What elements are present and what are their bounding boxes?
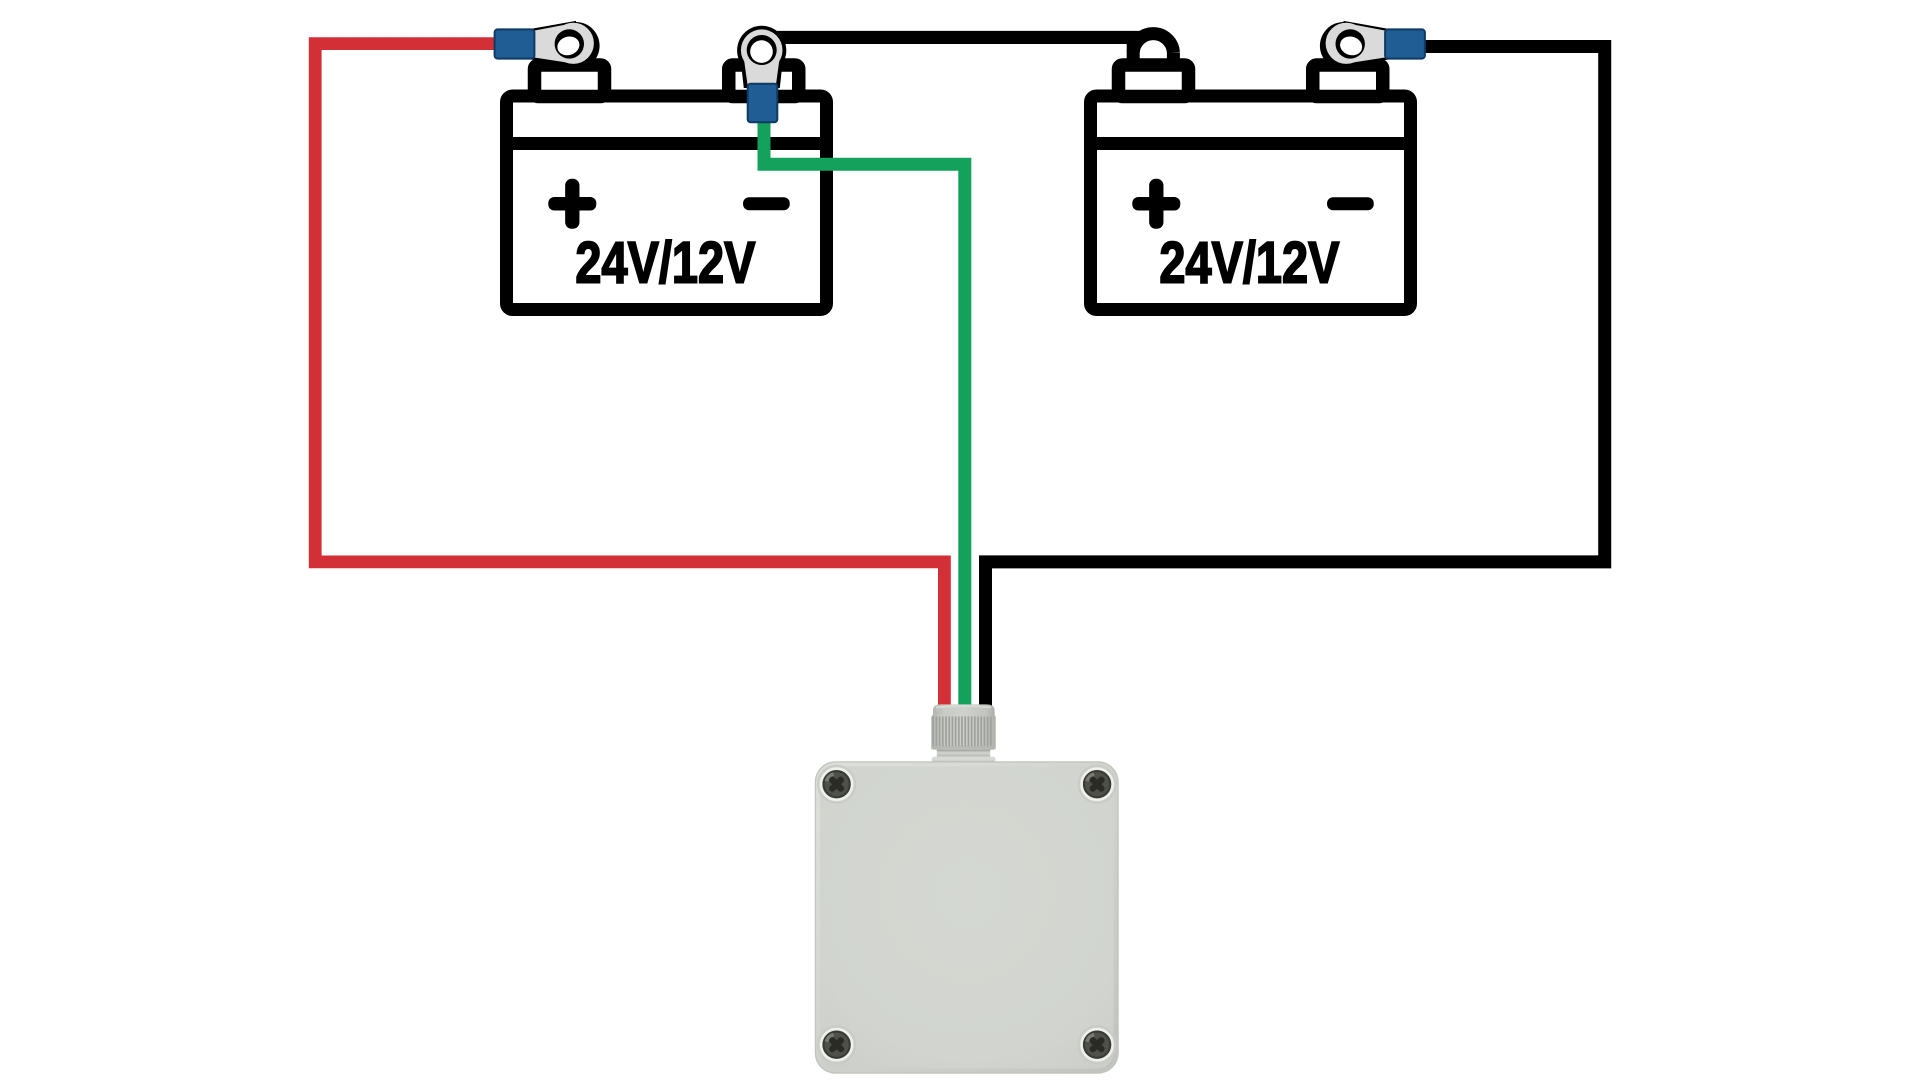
- wire black series link B1 negative to B2 positive: [764, 31, 1140, 44]
- screw bottom-left: [818, 1026, 855, 1063]
- junction box cable gland neck: [937, 750, 990, 758]
- battery B1: [501, 65, 833, 310]
- battery B2 minus symbol: [1327, 197, 1374, 210]
- wire black series loop right leg: [1167, 52, 1180, 66]
- blue crimp on B2 negative lug: [1385, 29, 1425, 58]
- svg-text:24V/12V: 24V/12V: [1159, 231, 1339, 296]
- battery B1 divider line: [501, 137, 833, 150]
- screw top-left: [818, 766, 855, 803]
- wire black B2 negative to junction box: [986, 47, 1605, 713]
- screw top-right: [1079, 766, 1116, 803]
- battery B2 plus symbol: [1132, 179, 1180, 229]
- battery B2: [1085, 65, 1417, 310]
- junction box cable gland ribbed nut: [931, 715, 995, 750]
- battery B1 plus symbol: [548, 179, 596, 229]
- ring terminal lug on B1 positive: [495, 21, 600, 70]
- ring terminal lug on B2 negative (mirrored): [1320, 21, 1425, 70]
- battery B2 negative post: [1313, 65, 1383, 97]
- battery B1 body: [507, 96, 827, 310]
- blue crimp on B1 negative lug: [748, 84, 778, 123]
- junction box enclosure body: [816, 762, 1119, 1073]
- screw bottom-right: [1079, 1026, 1116, 1063]
- battery B2 divider line: [1085, 137, 1417, 150]
- battery B1 negative post: [729, 65, 799, 97]
- ring terminal lug on B1 negative (vertical): [737, 26, 786, 122]
- blue crimp on B1 positive lug: [495, 29, 535, 58]
- wire black series loop left leg: [1127, 31, 1140, 63]
- wire green sense B1 negative to junction box: [764, 116, 965, 712]
- battery B1 positive post: [535, 65, 605, 97]
- wire black series loop arc over B2 positive post: [1133, 34, 1173, 53]
- junction box cable gland flange: [932, 757, 996, 763]
- junction box: [816, 704, 1119, 1073]
- svg-text:24V/12V: 24V/12V: [575, 231, 755, 296]
- battery B2 positive post: [1119, 65, 1189, 97]
- wire red positive B1 to junction box: [315, 44, 944, 712]
- battery B1 minus symbol: [743, 197, 790, 210]
- battery B2 body: [1091, 96, 1411, 310]
- junction box cable gland dome: [933, 704, 995, 719]
